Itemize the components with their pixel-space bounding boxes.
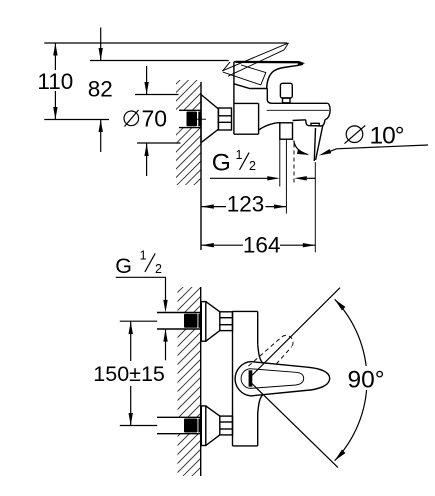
svg-text:G: G [115,254,132,278]
svg-text:164: 164 [243,233,281,258]
svg-text:90°: 90° [348,367,385,394]
svg-text:110: 110 [37,69,73,94]
svg-text:2: 2 [249,159,256,173]
svg-text:70: 70 [142,105,168,131]
svg-text:150±15: 150±15 [93,362,165,386]
svg-text:G: G [212,150,231,177]
svg-text:123: 123 [227,192,265,217]
svg-text:1: 1 [140,249,147,263]
svg-text:82: 82 [88,77,113,102]
svg-text:2: 2 [155,262,162,276]
svg-text:1: 1 [236,148,243,162]
svg-text:10°: 10° [370,122,404,149]
